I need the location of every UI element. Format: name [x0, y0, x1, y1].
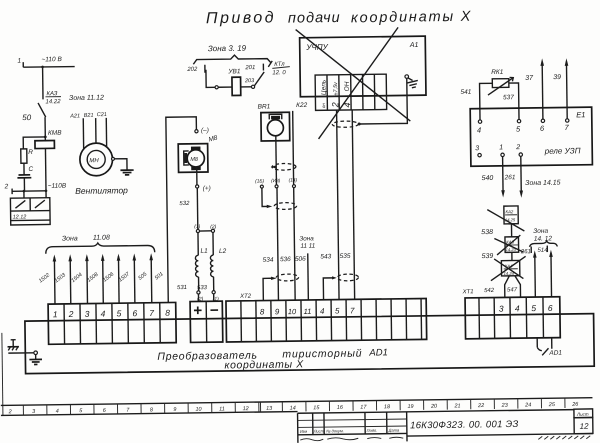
node circle 203: [244, 78, 255, 88]
wire 514 arrow up to XT1 pin 6: [537, 245, 553, 296]
svg-text:17: 17: [360, 405, 367, 411]
wire: [44, 148, 47, 190]
svg-text:К22: К22: [296, 102, 308, 109]
svg-text:5: 5: [335, 306, 340, 315]
wire 543 hook into cable to XT2 pin 4: [320, 253, 337, 300]
svg-text:АD1: АD1: [548, 350, 562, 357]
svg-text:506: 506: [295, 256, 306, 263]
bottom ruler strip: [1, 398, 593, 416]
terminal block plus-minus: [190, 301, 223, 342]
wire: [44, 117, 46, 140]
svg-text:547: 547: [507, 287, 518, 293]
wire arrow 1508: [86, 254, 105, 304]
svg-text:МН: МН: [89, 158, 99, 164]
pin 2 of E1: [515, 144, 522, 156]
svg-text:203: 203: [244, 78, 255, 84]
contactor coil KMV: [35, 141, 55, 149]
svg-text:4: 4: [342, 102, 352, 107]
svg-text:16К30Ф323. 00. 001 ЭЗ: 16К30Ф323. 00. 001 ЭЗ: [410, 419, 519, 431]
svg-text:А1: А1: [409, 42, 419, 49]
svg-text:RК1: RК1: [491, 69, 504, 76]
svg-text:(–): (–): [201, 127, 209, 134]
svg-text:11.08: 11.08: [93, 234, 110, 241]
cable marker ellipse middle-left: [276, 274, 298, 281]
svg-text:37: 37: [525, 75, 534, 82]
svg-text:~110В: ~110В: [48, 183, 67, 190]
svg-text:В21: В21: [84, 113, 94, 119]
svg-text:±7,5v: ±7,5v: [333, 81, 339, 96]
svg-text:ХТ1: ХТ1: [462, 289, 474, 295]
svg-text:16: 16: [337, 405, 344, 411]
svg-text:УВ1: УВ1: [227, 68, 241, 75]
svg-text:7: 7: [350, 306, 355, 315]
cross-out line over A1: [296, 28, 411, 122]
svg-text:подачи: подачи: [288, 10, 341, 27]
wire: [511, 252, 513, 260]
pin 3 of E1: [475, 145, 481, 157]
wire 543-535 from K22 pin2: [337, 110, 339, 299]
svg-text:С21: С21: [97, 112, 107, 118]
svg-text:Дата: Дата: [388, 428, 400, 433]
brace zone 14.12: [529, 241, 557, 247]
svg-text:А21: А21: [69, 113, 80, 119]
svg-text:Зона: Зона: [62, 235, 78, 242]
cable marker ellipse near K22: [332, 121, 358, 128]
svg-text:14.22: 14.22: [46, 99, 62, 105]
terminal strip XT (cells 1-8): [48, 302, 176, 344]
svg-text:8: 8: [165, 308, 170, 318]
title block captions: [300, 428, 400, 434]
svg-text:КМВ: КМВ: [48, 130, 62, 137]
wires below XT1 to AD1: [537, 338, 552, 351]
svg-text:543: 543: [320, 253, 331, 260]
svg-text:Привод: Привод: [206, 9, 276, 27]
svg-text:координаты Х: координаты Х: [351, 9, 472, 27]
svg-text:5: 5: [117, 308, 122, 318]
brace zone 3.19: [193, 55, 271, 65]
cable marker ellipse B: [274, 202, 296, 209]
svg-text:539: 539: [482, 253, 494, 260]
motor MN (fan motor): [80, 143, 113, 176]
terminal (14): [289, 178, 298, 188]
connector K22 table: [315, 74, 387, 110]
svg-text:25: 25: [548, 402, 556, 408]
wire to ground node: [8, 352, 34, 354]
wire arrow 1506: [102, 254, 121, 304]
svg-text:8: 8: [260, 307, 265, 316]
cable marker ellipse BR1: [270, 163, 295, 170]
pin plus: [194, 306, 202, 314]
svg-text:ХТ2: ХТ2: [239, 294, 252, 300]
svg-text:14. 12: 14. 12: [534, 235, 553, 242]
pin minus: [210, 309, 218, 311]
relay contact KA2 14.25: [487, 206, 524, 232]
svg-text:3: 3: [499, 304, 504, 314]
svg-text:реле УЗП: реле УЗП: [544, 146, 581, 155]
bottom edge hatch: [538, 436, 590, 440]
svg-text:Изм: Изм: [300, 429, 308, 434]
terminal strip XT1: [462, 288, 561, 339]
label AD1 pointer: [542, 348, 562, 357]
svg-text:7: 7: [149, 308, 154, 318]
wire 547 to XT1 pin 4: [507, 276, 521, 298]
svg-text:С: С: [28, 166, 33, 173]
svg-text:11: 11: [219, 406, 225, 412]
svg-text:535: 535: [340, 253, 351, 260]
svg-text:5: 5: [531, 303, 536, 313]
svg-text:531: 531: [177, 285, 187, 291]
converter box AD1 outline: [25, 314, 594, 374]
wire: [218, 86, 232, 88]
cross-out line over A1 second: [317, 27, 399, 139]
svg-text:532: 532: [179, 201, 190, 207]
svg-text:Зона: Зона: [299, 235, 314, 242]
wire 261 arrow down: [503, 156, 523, 198]
pin 6 of E1: [540, 119, 545, 133]
wire 542 to XT1 pin 3: [484, 276, 510, 298]
wire 506 to XT2 pin 10: [293, 111, 307, 300]
svg-text:6: 6: [132, 308, 137, 318]
rheostat RK1: [488, 69, 514, 95]
svg-text:2: 2: [4, 183, 9, 190]
svg-text:12: 12: [580, 422, 590, 431]
svg-text:2: 2: [8, 409, 12, 415]
svg-text:6: 6: [548, 303, 553, 313]
frame left border: [2, 333, 3, 415]
relay contact KA4 14.24: [491, 256, 526, 280]
chassis ground external: [7, 340, 19, 351]
svg-text:536: 536: [280, 256, 291, 263]
wire: [23, 178, 25, 191]
cable marker ellipse middle-right: [337, 274, 358, 281]
wire 537: [503, 83, 519, 120]
svg-text:ВR1: ВR1: [258, 103, 271, 110]
node 1: [17, 58, 23, 68]
svg-text:18: 18: [384, 404, 391, 410]
wire 202: [186, 65, 215, 88]
svg-text:(И3): (И3): [271, 178, 281, 184]
svg-text:10: 10: [288, 307, 297, 316]
svg-text:534: 534: [263, 257, 274, 264]
label Зона 11.11 and wire to XT2 pin 11: [299, 235, 316, 300]
sheet link box 12.12: [10, 191, 50, 225]
node circle left of UV1: [215, 86, 218, 89]
svg-text:3: 3: [85, 309, 90, 319]
svg-text:4: 4: [477, 126, 481, 135]
pin 7 of E1: [564, 119, 569, 132]
svg-text:2: 2: [330, 102, 340, 108]
svg-text:Зона 14.15: Зона 14.15: [525, 180, 561, 187]
switch blade 201: [244, 64, 264, 86]
wire arrow 1504: [70, 254, 89, 304]
terminal (+) of M8: [196, 185, 211, 193]
device box A1 (UCHPU): [300, 36, 426, 97]
inductor L1: [195, 233, 208, 277]
solenoid UV1: [227, 68, 241, 95]
svg-text:13: 13: [266, 406, 273, 412]
wire arrow 505: [137, 253, 153, 303]
wire 532: [179, 188, 198, 230]
wire from K22 pin4: [352, 110, 354, 299]
svg-text:(2): (2): [210, 224, 217, 230]
svg-text:261: 261: [520, 249, 531, 255]
svg-text:КА2: КА2: [505, 209, 513, 214]
svg-text:Вентилятор: Вентилятор: [75, 185, 128, 196]
svg-text:14.25: 14.25: [505, 217, 516, 222]
relay contact KA3 14.23: [494, 235, 523, 255]
terminal (-) of M8: [195, 127, 219, 144]
svg-text:11: 11: [304, 307, 312, 316]
svg-text:(1Б): (1Б): [255, 178, 264, 184]
inductor L2: [210, 232, 227, 277]
wire 536 to XT2 pin 9: [277, 188, 292, 301]
wire 501 from M8: [152, 117, 199, 303]
svg-text:1: 1: [53, 309, 58, 319]
svg-text:3: 3: [475, 145, 479, 152]
svg-text:R: R: [28, 149, 33, 156]
wire: [241, 86, 252, 88]
label KTl 12.0: [268, 61, 290, 77]
svg-text:20: 20: [430, 404, 438, 410]
svg-text:Подп.: Подп.: [367, 428, 378, 433]
svg-text:9: 9: [275, 307, 280, 316]
wire ground to cable shield: [359, 78, 407, 124]
svg-text:24: 24: [524, 402, 531, 408]
svg-text:12.12: 12.12: [13, 214, 27, 220]
svg-text:Цепь: Цепь: [320, 79, 327, 95]
svg-text:Е1: Е1: [576, 110, 585, 119]
wire: [196, 167, 198, 185]
svg-text:23: 23: [501, 403, 509, 409]
svg-text:1: 1: [499, 144, 503, 151]
svg-text:538: 538: [481, 229, 493, 236]
wire 39 arrow up: [553, 58, 569, 119]
node KMB: [44, 130, 62, 139]
capacitor C: [17, 166, 33, 178]
svg-text:26: 26: [571, 402, 579, 408]
junction node on top wire: [41, 66, 44, 69]
wire 534 upper segment into cable: [262, 188, 274, 264]
title block: [298, 409, 593, 442]
svg-text:L2: L2: [219, 248, 227, 255]
terminal (1Б): [255, 178, 265, 188]
ground inside A1: [405, 75, 418, 88]
svg-text:19: 19: [407, 404, 413, 410]
terminal (И3): [271, 178, 281, 188]
svg-text:Зона: Зона: [533, 228, 548, 235]
svg-text:Зона 11.12: Зона 11.12: [69, 95, 104, 102]
svg-text:2: 2: [68, 309, 74, 319]
svg-text:4: 4: [515, 303, 520, 313]
svg-text:1: 1: [17, 58, 21, 65]
wire 534 lower segment to XT2 pin 8: [263, 277, 277, 301]
wire: [510, 224, 512, 237]
sheet number 12: [574, 417, 593, 433]
wire arrow 1507: [118, 253, 137, 303]
motor MN phase wires A21 B21 C21: [69, 112, 107, 149]
svg-text:22: 22: [477, 403, 484, 409]
wire: [42, 67, 44, 99]
terminal (2) bottom: [197, 291, 204, 303]
svg-text:14: 14: [290, 405, 296, 411]
svg-text:~110 В: ~110 В: [41, 56, 62, 63]
pin 4 of E1: [477, 120, 482, 135]
svg-text:4: 4: [56, 409, 59, 415]
resistor R: [21, 149, 34, 163]
svg-text:4: 4: [101, 309, 106, 319]
svg-text:координаты Х: координаты Х: [224, 358, 304, 371]
svg-text:ОН: ОН: [344, 81, 351, 91]
switch KAZ 14.22: [38, 91, 62, 117]
terminal strip XT2: [226, 291, 427, 342]
svg-text:11 11: 11 11: [300, 243, 315, 250]
svg-text:М8: М8: [190, 157, 199, 163]
pin 5 of E1: [516, 119, 521, 133]
svg-text:201: 201: [244, 65, 255, 71]
ground (motor MN): [120, 170, 133, 175]
svg-text:Лист: Лист: [576, 412, 589, 417]
svg-text:4: 4: [320, 307, 325, 316]
sheet cell Лист: [574, 409, 593, 418]
svg-text:537: 537: [503, 94, 514, 101]
wire 37 arrow up: [525, 58, 545, 119]
terminal (2) of L2: [210, 224, 217, 232]
svg-text:Зона 3. 19: Зона 3. 19: [208, 44, 247, 54]
svg-text:10: 10: [195, 407, 202, 413]
svg-text:(1): (1): [194, 224, 201, 230]
wire BR1 down: [275, 136, 278, 185]
wire arrow 1502: [38, 254, 57, 304]
svg-text:2: 2: [515, 144, 520, 151]
pin 1 of E1: [499, 144, 504, 156]
svg-text:он: он: [321, 103, 326, 109]
wire branch to R: [23, 137, 45, 149]
svg-text:12: 12: [243, 406, 249, 412]
wire 541: [460, 83, 492, 120]
svg-text:15: 15: [313, 405, 320, 411]
ruler numbers 2-26: [8, 402, 580, 415]
svg-text:541: 541: [460, 89, 471, 96]
terminal (1) of L1: [194, 224, 201, 233]
wire 533: [197, 277, 214, 292]
svg-text:АD1: АD1: [368, 347, 388, 358]
wire 540 arrow down: [481, 157, 505, 198]
relay box E1 (реле УЗП): [470, 107, 592, 166]
svg-text:№ докум.: № докум.: [326, 428, 344, 433]
svg-text:50: 50: [22, 113, 32, 122]
svg-text:21: 21: [453, 403, 460, 409]
svg-text:261: 261: [504, 174, 516, 181]
wire ~110V top: [23, 66, 74, 69]
tachogenerator BR1: [258, 103, 290, 141]
wire: [23, 163, 25, 175]
svg-text:542: 542: [484, 288, 495, 294]
motor MN ground terminal: [111, 157, 127, 170]
terminal (1) bottom: [212, 291, 219, 303]
brace zone 11.08: [46, 242, 155, 253]
svg-text:202: 202: [186, 67, 198, 73]
label Зона 14.12: [533, 228, 552, 243]
svg-text:39: 39: [553, 74, 561, 81]
ground node circle: [34, 351, 38, 355]
wire 261 arrow up to XT1 pin 5: [520, 246, 537, 297]
label Зона 11.08: [62, 234, 110, 242]
node 2 bus: [4, 183, 48, 194]
svg-text:540: 540: [482, 175, 494, 182]
title: Привод подачи координаты X: [206, 7, 472, 28]
svg-text:Лист: Лист: [313, 428, 325, 433]
wire arrow 1503: [53, 254, 72, 304]
svg-text:(+): (+): [203, 185, 211, 192]
wire linking L tops: [200, 230, 212, 232]
wire 531: [177, 277, 199, 291]
svg-text:L1: L1: [200, 248, 208, 255]
svg-text:9: 9: [173, 407, 176, 413]
earth ground inside AD1: [29, 354, 42, 364]
svg-text:12. 0: 12. 0: [272, 70, 286, 76]
motor M8: [178, 144, 208, 173]
